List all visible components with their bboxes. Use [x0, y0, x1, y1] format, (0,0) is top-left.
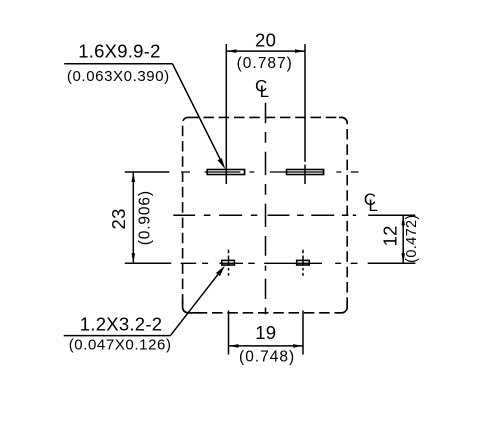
vertical center centerline of body	[265, 103, 267, 315]
leader line to small left slot	[170, 271, 220, 335]
big slot right 1.6x9.9	[287, 170, 324, 175]
dimension 23 extension lines	[125, 172, 171, 263]
dimension 20 dimension line with arrows	[226, 50, 305, 52]
small slot right 1.2x3.2	[297, 260, 310, 265]
dimension 23 dimension line with arrows	[132, 172, 134, 263]
svg-text:20: 20	[255, 30, 276, 51]
outline corner top-right (solid overdraw)	[339, 117, 347, 123]
leader line to big left slot	[173, 64, 223, 163]
dimension 12 dimension line with arrows	[402, 215, 404, 263]
extension line left column (through big left slot)	[225, 44, 227, 184]
svg-text:(0.472): (0.472)	[404, 214, 420, 262]
svg-text:(0.787): (0.787)	[237, 55, 293, 72]
svg-text:(0.906): (0.906)	[137, 190, 154, 245]
horizontal mid centerline of body	[173, 214, 356, 216]
dimension 19 extension lines	[229, 311, 304, 355]
outline corner bottom-left (solid overdraw)	[183, 300, 202, 313]
svg-text:1.2X3.2-2: 1.2X3.2-2	[80, 314, 162, 335]
centerline small right slot column	[302, 250, 304, 276]
svg-text:(0.063X0.390): (0.063X0.390)	[67, 68, 170, 85]
svg-text:(0.748): (0.748)	[239, 349, 295, 366]
dimension 12 extension lines	[368, 215, 416, 263]
leader underline top label	[64, 63, 172, 65]
svg-text:23: 23	[108, 208, 129, 229]
svg-text:1.6X9.9-2: 1.6X9.9-2	[78, 40, 160, 61]
svg-text:19: 19	[255, 322, 276, 343]
svg-text:L: L	[260, 82, 269, 101]
leader underline bottom label	[64, 335, 171, 337]
big slot left 1.6x9.9	[207, 170, 244, 175]
extension line right column (through big right slot)	[304, 44, 306, 184]
component body dashed outline	[183, 117, 348, 312]
small slot left 1.2x3.2	[222, 260, 235, 265]
svg-text:12: 12	[380, 225, 401, 246]
svg-text:(0.047X0.126): (0.047X0.126)	[69, 337, 172, 354]
horizontal centerline row 1 (top slot row)	[181, 171, 358, 173]
svg-text:L: L	[368, 196, 377, 215]
centerline small left slot column	[228, 250, 230, 276]
outline corner bottom-right (solid overdraw)	[337, 301, 347, 313]
horizontal centerline row 2 (bottom slot row)	[181, 262, 358, 264]
dimension 19 dimension line with arrows	[229, 345, 304, 347]
